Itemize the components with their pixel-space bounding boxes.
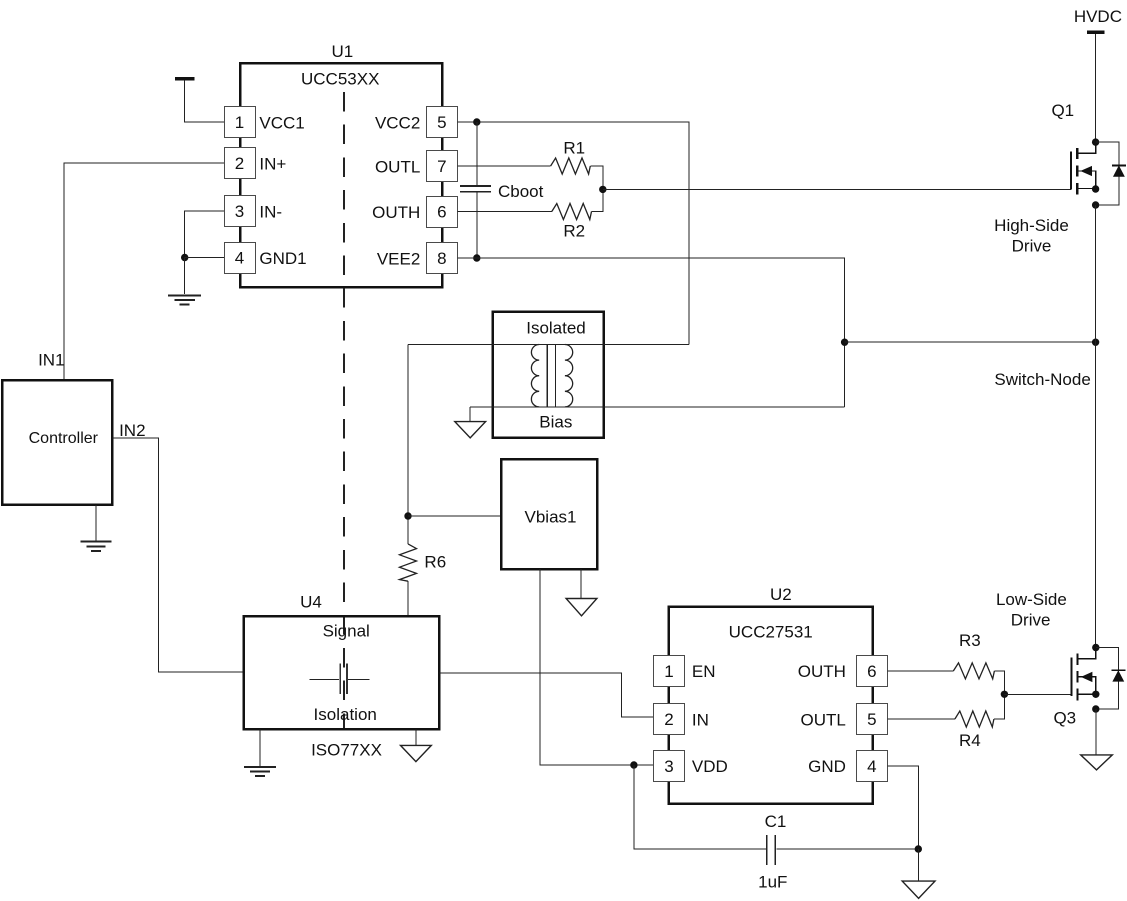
wire Q3 source to ground xyxy=(1095,709,1097,755)
U1 pin 3 (IN-) xyxy=(225,196,283,227)
IC U2 UCC27531 box xyxy=(669,585,873,804)
wire R4 to Q3 gate node xyxy=(994,694,1005,719)
wire transformer secondary bottom to switch node xyxy=(470,342,845,407)
svg-text:3: 3 xyxy=(235,202,244,221)
transistor Q3 drain lead xyxy=(1078,648,1096,659)
HVDC supply bar xyxy=(1087,31,1104,34)
wire GND1 node to ground xyxy=(184,258,186,295)
U1 pin 6 (OUTH) xyxy=(372,197,457,228)
svg-text:R2: R2 xyxy=(563,222,585,241)
transistor Q1 label xyxy=(1051,101,1074,120)
wire switch node xyxy=(845,341,1096,343)
U2 pin 6 (OUTH) xyxy=(798,656,888,687)
wire U4 left ground stem xyxy=(259,729,261,766)
diode Q3 body cathode bar xyxy=(1111,669,1125,671)
diode Q3 body anode xyxy=(1113,671,1123,681)
svg-text:OUTL: OUTL xyxy=(801,710,846,729)
wire OUTH pin 6 to R2 xyxy=(457,211,552,213)
wire transformer primary to Vbias node xyxy=(407,344,409,544)
wire R1 to gate node xyxy=(590,166,603,189)
wire pin 3 IN- down to GND1 node xyxy=(185,211,224,258)
label Low-Side Drive xyxy=(996,590,1067,630)
label ISO77XX xyxy=(311,741,382,760)
node Q1 source junction xyxy=(1092,185,1099,192)
transistor Q3 label xyxy=(1053,709,1076,728)
wire R3 to Q3 gate node xyxy=(994,671,1004,694)
svg-text:R6: R6 xyxy=(424,553,446,572)
node Cboot top junction xyxy=(473,118,480,125)
svg-text:Low-Side: Low-Side xyxy=(996,590,1067,609)
node Q1 diode bottom junction xyxy=(1092,201,1099,208)
wire transformer primary top xyxy=(408,343,689,345)
U1 pin 7 (OUTL) xyxy=(375,151,458,182)
svg-text:Bias: Bias xyxy=(539,413,572,432)
transformer secondary winding xyxy=(565,345,573,407)
svg-text:6: 6 xyxy=(867,662,876,681)
svg-text:Switch-Node: Switch-Node xyxy=(994,370,1090,389)
node switch-node on rail xyxy=(1092,339,1099,346)
wire transformer primary bottom to ground xyxy=(469,407,471,422)
wire GND1 node to pin 4 xyxy=(185,257,224,259)
transistor Q3 channel xyxy=(1076,654,1078,701)
VCC1 supply bar xyxy=(175,77,194,80)
resistor R6 xyxy=(400,544,447,581)
svg-text:Drive: Drive xyxy=(1012,237,1052,256)
svg-text:GND1: GND1 xyxy=(259,249,306,268)
wire Vbias1 output down to VDD wire xyxy=(540,569,654,765)
diode Q1 body anode xyxy=(1114,166,1124,176)
U2 pin 4 (GND) xyxy=(808,751,887,782)
wire VDD node to C1 xyxy=(634,765,766,849)
svg-text:Cboot: Cboot xyxy=(498,182,544,201)
ground U4 left xyxy=(244,767,276,776)
svg-text:C1: C1 xyxy=(765,812,787,831)
svg-text:Vbias1: Vbias1 xyxy=(525,507,577,526)
svg-text:Isolation: Isolation xyxy=(314,705,377,724)
svg-text:GND: GND xyxy=(808,757,846,776)
node Q3 source junction xyxy=(1092,691,1099,698)
svg-text:UCC27531: UCC27531 xyxy=(729,622,813,641)
U2 pin 3 (VDD) xyxy=(654,751,728,782)
node GND junction xyxy=(915,845,922,852)
node VDD junction xyxy=(630,761,637,768)
svg-text:2: 2 xyxy=(664,710,673,729)
wire Vbias1 negative to ground xyxy=(580,569,582,598)
wire controller to ground xyxy=(95,505,97,541)
node Q3 drain junction xyxy=(1092,644,1099,651)
svg-text:6: 6 xyxy=(437,203,446,222)
transistor Q3 source lead xyxy=(1078,693,1096,695)
svg-text:VDD: VDD xyxy=(692,757,728,776)
svg-text:R4: R4 xyxy=(959,731,981,750)
svg-text:OUTH: OUTH xyxy=(798,662,846,681)
wire OUTH pin 6 to R3 xyxy=(887,670,953,672)
wire Cboot bottom lead xyxy=(476,192,478,258)
wire VEE2 pin 8 to switch node xyxy=(457,258,844,342)
svg-text:OUTH: OUTH xyxy=(372,203,420,222)
svg-text:IN2: IN2 xyxy=(119,421,145,440)
wire U2 GND pin 4 to GND node xyxy=(887,766,918,849)
transistor Q3 body arrow xyxy=(1082,673,1092,682)
node Cboot bottom junction xyxy=(473,254,480,261)
svg-text:Q1: Q1 xyxy=(1051,101,1074,120)
svg-text:OUTL: OUTL xyxy=(375,157,420,176)
svg-text:1: 1 xyxy=(664,662,673,681)
svg-text:R3: R3 xyxy=(959,631,981,650)
U2 pin 1 (EN) xyxy=(654,656,716,687)
svg-text:IN+: IN+ xyxy=(259,154,286,173)
IC U4 ISO77XX box xyxy=(244,593,440,730)
wire U4 right ground stem xyxy=(415,729,417,745)
resistor R1 xyxy=(551,139,591,175)
svg-text:IN-: IN- xyxy=(259,202,282,221)
svg-text:Isolated: Isolated xyxy=(526,319,586,338)
isolation barrier dashed line xyxy=(343,92,345,729)
svg-text:Drive: Drive xyxy=(1011,611,1051,630)
transistor Q1 drain lead xyxy=(1077,142,1096,153)
svg-text:VCC2: VCC2 xyxy=(375,113,420,132)
wire Q3 gate node to gate xyxy=(1004,693,1071,695)
svg-text:U4: U4 xyxy=(300,593,322,612)
transistor Q1 gate bar xyxy=(1070,152,1072,190)
U1 pin 4 (GND1) xyxy=(225,243,307,274)
wire C1 to GND node xyxy=(776,848,918,850)
transformer core xyxy=(547,345,555,407)
svg-text:VCC1: VCC1 xyxy=(259,113,304,132)
node IN1 label xyxy=(38,351,64,370)
wire gate node to Q1 gate xyxy=(603,188,1071,190)
isolation capacitor symbol U4 xyxy=(310,664,370,695)
svg-text:Q3: Q3 xyxy=(1053,709,1076,728)
capacitor Cboot xyxy=(460,182,544,201)
svg-text:8: 8 xyxy=(437,249,446,268)
node Q1 drain junction xyxy=(1092,138,1099,145)
svg-text:1uF: 1uF xyxy=(758,872,787,891)
svg-text:U2: U2 xyxy=(770,585,792,604)
wire Q1 source to Q3 drain rail xyxy=(1095,205,1097,648)
U2 pin 5 (OUTL) xyxy=(801,704,888,735)
U1 pin 1 (VCC1) xyxy=(225,107,305,138)
node HVDC label xyxy=(1074,7,1122,26)
IC U1 UCC53XX box xyxy=(240,42,442,287)
svg-text:7: 7 xyxy=(437,157,446,176)
transistor Q1 channel xyxy=(1076,148,1078,195)
wire VCC2 to isolated bias transformer xyxy=(457,122,689,344)
resistor R2 xyxy=(552,204,592,241)
wire Vbias node to Vbias1 xyxy=(408,515,501,517)
svg-text:R1: R1 xyxy=(563,139,585,158)
ground controller xyxy=(80,542,111,551)
node Q3 diode bottom junction xyxy=(1092,705,1099,712)
U2 pin 2 (IN) xyxy=(654,704,709,735)
svg-text:4: 4 xyxy=(235,249,244,268)
node Switch-Node label xyxy=(994,370,1090,389)
wire pin 2 IN+ to controller IN1 xyxy=(64,163,224,380)
svg-text:U1: U1 xyxy=(332,42,354,61)
wire Cboot top lead xyxy=(476,122,478,185)
svg-text:2: 2 xyxy=(235,154,244,173)
svg-text:HVDC: HVDC xyxy=(1074,7,1122,26)
diode Q1 body cathode bar xyxy=(1112,164,1126,166)
node Q1 gate junction xyxy=(599,186,606,193)
node GND1 junction xyxy=(181,254,188,261)
wire controller IN2 to U4 xyxy=(112,438,243,672)
node Q3 gate junction xyxy=(1001,691,1008,698)
resistor R4 xyxy=(955,711,994,750)
wire R2 to gate node xyxy=(592,189,603,211)
label High-Side Drive xyxy=(994,216,1069,256)
svg-text:Signal: Signal xyxy=(323,621,370,640)
U1 pin 8 (VEE2) xyxy=(377,243,458,274)
wire Q1 body diode branch xyxy=(1096,142,1119,205)
svg-text:3: 3 xyxy=(664,757,673,776)
wire HVDC to Q1 drain xyxy=(1095,34,1097,142)
node Vbias junction xyxy=(404,512,411,519)
wire OUTL pin 5 to R4 xyxy=(887,718,955,720)
svg-text:UCC53XX: UCC53XX xyxy=(301,70,379,89)
ground GND1 xyxy=(168,295,201,304)
svg-text:4: 4 xyxy=(867,757,876,776)
transformer primary winding xyxy=(531,345,539,407)
svg-text:IN: IN xyxy=(692,710,709,729)
transistor Q3 gate bar xyxy=(1070,657,1072,696)
node IN2 label xyxy=(119,421,145,440)
capacitor C1 xyxy=(758,812,787,892)
wire R6 to U4 xyxy=(407,581,409,616)
controller block xyxy=(2,380,112,505)
resistor R3 xyxy=(953,631,994,679)
ground U2 xyxy=(902,881,935,898)
svg-text:ISO77XX: ISO77XX xyxy=(311,741,382,760)
ground Q3 source xyxy=(1081,755,1113,770)
svg-text:5: 5 xyxy=(437,113,446,132)
svg-text:VEE2: VEE2 xyxy=(377,249,420,268)
svg-text:1: 1 xyxy=(235,113,244,132)
ground Vbias1 xyxy=(566,599,597,616)
node switch-node junction left xyxy=(841,339,848,346)
transistor Q1 body lead xyxy=(1077,171,1096,189)
transistor Q1 body arrow xyxy=(1082,167,1092,176)
U1 pin 2 (IN+) xyxy=(225,148,287,179)
svg-text:IN1: IN1 xyxy=(38,351,64,370)
svg-text:High-Side: High-Side xyxy=(994,216,1069,235)
transistor Q1 source lead xyxy=(1077,188,1096,190)
wire OUTL pin 7 to R1 xyxy=(457,165,550,167)
wire GND node to ground xyxy=(917,849,919,881)
wire Q3 body diode branch xyxy=(1096,648,1119,710)
svg-text:5: 5 xyxy=(867,710,876,729)
ground U4 right xyxy=(401,745,432,761)
svg-text:EN: EN xyxy=(692,662,716,681)
wire VCC1 supply to pin 1 xyxy=(185,80,224,122)
transistor Q3 body lead xyxy=(1078,677,1096,694)
svg-text:Controller: Controller xyxy=(29,430,99,447)
ground transformer primary xyxy=(455,422,486,438)
voltage source Vbias1 box xyxy=(501,459,597,569)
U1 pin 5 (VCC2) xyxy=(375,107,458,138)
wire U4 output to U2 IN xyxy=(439,673,653,717)
isolated bias transformer box xyxy=(493,312,604,438)
